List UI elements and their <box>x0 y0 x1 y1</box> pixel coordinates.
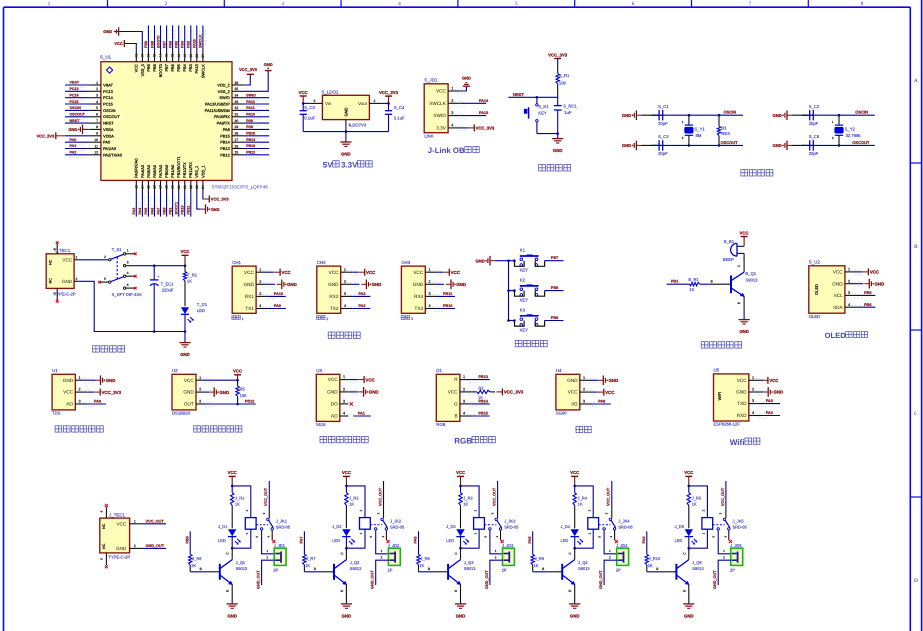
svg-text:4: 4 <box>609 536 613 538</box>
svg-text:1: 1 <box>463 375 465 379</box>
S_U2 pin 4 stub <box>845 303 863 310</box>
resistor J_R8 1K base <box>417 554 431 572</box>
svg-text:PB10/TX: PB10/TX <box>182 162 187 178</box>
svg-text:S_C2: S_C2 <box>809 104 820 109</box>
svg-text:B_B1: B_B1 <box>724 239 735 244</box>
connector J_JD3 2P terminal <box>502 543 515 573</box>
U5 pin 1 stub <box>749 376 767 383</box>
svg-text:2P: 2P <box>502 568 507 573</box>
wire net PB12 from U2 OUT <box>205 399 256 405</box>
svg-text:S_C3: S_C3 <box>658 134 669 139</box>
svg-text:J_D5: J_D5 <box>675 524 685 529</box>
wire net VCC_OUT to relay switch <box>493 481 498 508</box>
svg-text:42: 42 <box>171 54 175 58</box>
svg-text:S_C3: S_C3 <box>304 105 315 110</box>
power VCC at OLED pin1 <box>857 268 880 275</box>
svg-text:3.3V: 3.3V <box>341 161 358 170</box>
ground at U4 pin1 <box>592 376 618 386</box>
caption servo <box>576 426 591 432</box>
wire net PA5 from U1 bottom pin 15 <box>144 192 151 217</box>
connector U4 SG90 body <box>556 368 580 415</box>
svg-text:2: 2 <box>134 544 136 548</box>
svg-text:C: C <box>454 552 458 555</box>
svg-text:22: 22 <box>189 185 193 189</box>
wire net VCC_OUT from J_TEC1 pin1 <box>142 519 166 523</box>
svg-text:7: 7 <box>749 1 752 7</box>
wire net PB8 to U1 top pin 45 <box>150 25 157 50</box>
wire net VBAT to U1 pin 1 <box>65 81 89 88</box>
svg-text:GND: GND <box>570 614 580 619</box>
wire net PA7 to base resistor <box>300 531 305 554</box>
CH3 pin 1 stub <box>425 268 443 275</box>
svg-text:S9013: S9013 <box>745 277 758 282</box>
ground left of S_C6 <box>772 141 792 151</box>
svg-text:J_R2: J_R2 <box>349 496 359 501</box>
svg-text:PB10: PB10 <box>443 304 453 308</box>
svg-text:PB11: PB11 <box>443 292 452 296</box>
svg-text:35: 35 <box>235 87 239 91</box>
svg-text:PA12/USB/DP: PA12/USB/DP <box>205 102 230 107</box>
wire net PB10 from U1 bottom pin 21 <box>181 192 188 217</box>
svg-text:VCC: VCC <box>451 270 461 275</box>
svg-text:J_JD3: J_JD3 <box>502 543 514 548</box>
U1 top pin 44 BOOT0 <box>158 51 163 78</box>
svg-text:5: 5 <box>712 536 716 538</box>
svg-text:3: 3 <box>314 99 316 103</box>
ground at U1 pin 8 VSSA <box>68 125 89 135</box>
svg-text:PB15: PB15 <box>246 132 255 136</box>
ground below J_Q5 <box>683 604 694 619</box>
LED J_D5 <box>675 524 698 550</box>
svg-text:4: 4 <box>451 124 453 128</box>
svg-text:S_LDO1: S_LDO1 <box>322 90 339 95</box>
svg-text:10: 10 <box>94 138 98 142</box>
caption water quality module <box>55 426 103 432</box>
svg-text:OSCOUT: OSCOUT <box>70 113 86 117</box>
wire U1 top VCC pin to VCC tick <box>125 44 137 51</box>
svg-text:TYPE-C-2P: TYPE-C-2P <box>108 555 130 560</box>
wire net PC14 to U1 pin 3 <box>65 93 89 100</box>
svg-text:VDD_2: VDD_2 <box>217 83 230 88</box>
U1 right pin 27 PB14 <box>220 138 243 145</box>
svg-text:PB5: PB5 <box>176 64 181 71</box>
svg-text:SRD-05: SRD-05 <box>618 524 633 529</box>
caption J-Link OB port <box>428 146 480 155</box>
svg-text:KEY: KEY <box>520 328 529 333</box>
svg-text:1: 1 <box>259 268 261 272</box>
wire LDO ground rail <box>303 127 388 133</box>
svg-text:RGB: RGB <box>436 422 445 427</box>
wire U1 VDD_1 to VCC_3V3 <box>202 192 204 200</box>
svg-text:1: 1 <box>451 87 453 91</box>
wire bus to key K1 <box>509 259 516 262</box>
wire net PA10 to U1 pin 31 <box>244 113 270 120</box>
svg-text:38: 38 <box>195 54 199 58</box>
svg-text:20pF: 20pF <box>809 121 819 126</box>
svg-text:VBAT: VBAT <box>70 81 80 85</box>
switch K1 KEY <box>515 248 545 273</box>
U1 left pin 7 NRST <box>89 119 114 126</box>
svg-text:TX1: TX1 <box>245 306 254 311</box>
svg-text:VCC_OUT: VCC_OUT <box>607 487 611 506</box>
wire VCC node to relay coil J_JK5 <box>688 485 708 518</box>
svg-text:2P: 2P <box>388 568 393 573</box>
svg-text:4: 4 <box>343 412 345 416</box>
svg-text:PA0: PA0 <box>70 138 77 142</box>
svg-text:VCC_3V3: VCC_3V3 <box>211 197 230 202</box>
svg-text:S9013: S9013 <box>350 566 362 571</box>
transistor J_Q5 S9013 <box>676 560 704 585</box>
U1 top pin 45 PB8 <box>152 51 157 72</box>
capacitor S_C4 0.1uF <box>381 102 405 132</box>
svg-text:16: 16 <box>153 185 157 189</box>
wire net PA2 from CH2 pin4 <box>352 304 370 308</box>
svg-text:8M: 8M <box>696 133 702 138</box>
caption OLED display <box>825 331 868 340</box>
wire emitter of J_Q4 to ground <box>568 585 575 604</box>
power VCC above R5 <box>233 369 242 381</box>
wire relay NC contact to terminal J_JD1 <box>262 532 275 554</box>
no-connect at U3 DO pin3 <box>350 402 353 405</box>
connector J_JD1 2P terminal <box>273 543 286 573</box>
svg-text:GND: GND <box>183 390 194 395</box>
power VCC above C3 <box>299 90 308 104</box>
svg-text:10K: 10K <box>240 393 247 398</box>
U1 right pin 30 PA9/TX <box>217 119 244 126</box>
svg-text:PC14: PC14 <box>103 95 114 100</box>
wire net PB8 from key K2 <box>545 286 564 291</box>
connector U2 DS18B20 body <box>172 368 196 415</box>
ground left of S_C1 <box>622 110 642 120</box>
power VCC_3V3 above R1 <box>548 52 568 66</box>
svg-text:GND_OUT: GND_OUT <box>146 544 165 548</box>
relay J_JK2 coil box <box>360 518 371 530</box>
svg-text:GND: GND <box>264 62 273 67</box>
U1 left pin 12 PA2/TX/A0 <box>89 151 123 158</box>
connector CH2 serial header body <box>317 260 341 313</box>
svg-text:RX2: RX2 <box>329 294 339 299</box>
caption power circuit <box>93 346 125 352</box>
wire net PB9 to U1 top pin 46 <box>144 25 151 50</box>
svg-text:PA0: PA0 <box>94 400 101 404</box>
svg-text:0.1uF: 0.1uF <box>304 116 315 121</box>
svg-text:R1: R1 <box>721 125 727 130</box>
wire VCC node to relay coil J_JK1 <box>231 485 251 518</box>
svg-text:6: 6 <box>96 113 98 117</box>
svg-text:PB0: PB0 <box>185 536 189 543</box>
svg-text:OSCOUT: OSCOUT <box>103 114 120 119</box>
svg-text:U1: U1 <box>52 368 58 373</box>
LED J_D4 <box>561 524 584 550</box>
svg-text:J_JD2: J_JD2 <box>388 543 400 548</box>
svg-text:B: B <box>542 567 544 571</box>
svg-text:NRST: NRST <box>70 119 81 123</box>
relay J_JK3 coil box <box>474 518 485 530</box>
svg-text:1: 1 <box>199 376 201 380</box>
svg-text:1K: 1K <box>534 563 539 568</box>
svg-text:GND: GND <box>219 390 229 395</box>
svg-text:VCC: VCC <box>769 378 779 383</box>
U3 pin 1 stub <box>340 375 358 382</box>
wire net PA11 to U1 pin 32 <box>244 106 270 113</box>
svg-text:GND: GND <box>180 352 190 357</box>
svg-text:2: 2 <box>96 87 98 91</box>
ground below reset <box>552 134 563 154</box>
svg-text:G: G <box>454 402 458 407</box>
svg-text:1K: 1K <box>305 563 310 568</box>
svg-text:PB12: PB12 <box>246 151 255 155</box>
svg-text:S_Y1: S_Y1 <box>695 126 706 131</box>
svg-text:TX3: TX3 <box>414 306 423 311</box>
wire VCC node to relay coil J_JK2 <box>345 485 365 518</box>
wire T_TEC1 VCC to switch <box>79 259 109 261</box>
ground below buzzer <box>739 320 750 335</box>
svg-text:RXD: RXD <box>737 413 748 418</box>
U5 pin 4 stub <box>749 411 767 418</box>
U1 top pin 43 PB7 <box>164 51 169 72</box>
svg-text:26: 26 <box>235 144 239 148</box>
svg-text:44: 44 <box>159 54 163 58</box>
svg-text:VCC: VCC <box>281 270 291 275</box>
svg-text:S9013: S9013 <box>578 566 590 571</box>
wire U1 VSS_2 to GND <box>244 71 269 91</box>
LED T_D1 <box>181 302 208 333</box>
wire collector pin of J_Q3 <box>454 548 461 559</box>
wire net PB15 from D1 B <box>472 411 490 416</box>
svg-text:CH2: CH2 <box>317 260 326 265</box>
svg-text:NRST: NRST <box>513 92 524 97</box>
connector CH1 serial header body <box>232 260 256 313</box>
wire net PA15 to U1 top pin 38 <box>193 25 200 50</box>
wire VCC node to relay coil J_JK4 <box>573 485 593 518</box>
svg-text:B_R1: B_R1 <box>688 277 699 282</box>
wire net VCC_OUT to relay switch <box>607 481 612 508</box>
svg-text:K3: K3 <box>520 307 526 312</box>
svg-text:29: 29 <box>235 125 239 129</box>
svg-text:VCC: VCC <box>228 470 237 475</box>
ground below J_Q2 <box>341 604 352 619</box>
svg-text:PB9: PB9 <box>146 64 151 71</box>
connector J_TEC1 TYPE-C-2P body <box>100 512 131 559</box>
svg-text:PA4: PA4 <box>138 208 142 215</box>
connector S_U2 OLED body <box>809 260 845 319</box>
svg-text:VCC_3V3: VCC_3V3 <box>379 90 399 95</box>
wire emitter to ground <box>737 296 744 319</box>
svg-text:2: 2 <box>463 388 465 392</box>
ground below J_Q3 <box>455 604 466 619</box>
svg-text:PA7/A0: PA7/A0 <box>158 164 163 178</box>
U1 right pin 28 PB15 <box>220 132 243 139</box>
capacitor S_C3 0.1uF <box>300 103 316 131</box>
svg-text:19: 19 <box>171 185 175 189</box>
svg-text:RX3: RX3 <box>414 294 424 299</box>
relay J_JK1 coil box <box>245 518 256 530</box>
transistor J_Q2 S9013 <box>334 560 362 585</box>
svg-text:LED: LED <box>197 308 205 313</box>
power VCC above J_R3 <box>456 470 465 486</box>
power VCC_3V3 above U1 right <box>239 67 258 74</box>
U1 bottom pin 24 VDD_1 <box>200 165 205 191</box>
svg-text:3: 3 <box>490 512 494 514</box>
D1 pin 2 stub <box>460 388 478 395</box>
svg-text:RX1: RX1 <box>245 294 255 299</box>
svg-text:PA3: PA3 <box>766 399 773 403</box>
power VCC above buzzer <box>740 230 749 246</box>
power VCC at CH2 pin1 <box>352 269 376 276</box>
svg-text:2P: 2P <box>730 568 735 573</box>
svg-text:3: 3 <box>451 111 453 115</box>
wire net PA7 from U1 bottom pin 17 <box>156 192 163 217</box>
wire net SWCLK to U1 top pin 37 <box>199 25 206 50</box>
resistor T_R1 1K <box>183 266 198 307</box>
svg-text:2: 2 <box>245 509 249 511</box>
svg-text:1: 1 <box>359 532 363 534</box>
svg-text:2: 2 <box>848 279 850 283</box>
svg-text:OLED: OLED <box>814 284 819 295</box>
power VCC at U5 pin1 <box>761 377 779 384</box>
svg-text:PA3: PA3 <box>132 208 136 215</box>
svg-text:3: 3 <box>752 399 754 403</box>
svg-text:LED: LED <box>218 538 226 543</box>
svg-text:J_R7: J_R7 <box>306 556 316 561</box>
svg-text:45: 45 <box>153 54 157 58</box>
power VCC at U3 pin1 <box>348 376 375 383</box>
wire VCC node to relay coil J_JK3 <box>459 485 479 518</box>
svg-text:1: 1 <box>495 549 497 553</box>
ground below LDO <box>340 132 351 157</box>
svg-text:VSSA: VSSA <box>103 127 114 132</box>
svg-text:PB13: PB13 <box>220 146 230 151</box>
LDO pin 2 Vout stub <box>369 99 381 103</box>
svg-text:GND: GND <box>68 127 77 132</box>
svg-text:J_R5: J_R5 <box>692 496 702 501</box>
wire net OSCIN to U1 pin 5 <box>65 106 89 113</box>
svg-text:25: 25 <box>235 151 239 155</box>
svg-text:2: 2 <box>78 388 80 392</box>
resistor J_R10 1K base <box>645 554 661 572</box>
svg-text:PA3: PA3 <box>358 292 365 296</box>
svg-text:LED: LED <box>675 538 683 543</box>
svg-text:GND: GND <box>553 148 563 153</box>
svg-text:VCC: VCC <box>329 270 340 275</box>
svg-text:3: 3 <box>96 94 98 98</box>
U1 bottom pin 16 PA6/A0 <box>152 164 157 191</box>
svg-text:OSCIN: OSCIN <box>103 108 116 113</box>
svg-text:PB2/BOOT1: PB2/BOOT1 <box>176 156 181 178</box>
svg-text:2: 2 <box>343 388 345 392</box>
svg-text:47: 47 <box>141 54 145 58</box>
svg-text:S_U1: S_U1 <box>100 55 112 60</box>
svg-text:3: 3 <box>605 512 609 514</box>
svg-text:PB4: PB4 <box>181 41 185 48</box>
svg-text:LED: LED <box>446 538 454 543</box>
svg-text:J_R8: J_R8 <box>420 556 430 561</box>
svg-text:VCC_OUT: VCC_OUT <box>146 519 165 523</box>
wire net PB15 to U1 pin 28 <box>244 132 270 139</box>
U1 bottom pin 20 PB2/BOOT1 <box>176 156 181 191</box>
wire net PA12 to U1 pin 33 <box>244 100 270 107</box>
svg-text:RGB: RGB <box>454 436 472 445</box>
svg-text:6: 6 <box>127 283 129 287</box>
svg-text:C: C <box>226 552 230 555</box>
svg-text:4: 4 <box>495 536 499 538</box>
capacitor S_C3 20pF <box>641 134 669 156</box>
svg-text:LED: LED <box>561 538 569 543</box>
T_TEC1 pin 1 stub <box>74 255 79 260</box>
U5 pin 2 stub <box>749 388 767 395</box>
serial port 2 label <box>317 316 329 322</box>
svg-text:220uF: 220uF <box>162 287 174 292</box>
svg-text:CH3: CH3 <box>401 260 410 265</box>
svg-text:PA8: PA8 <box>223 127 230 132</box>
svg-text:PB14: PB14 <box>478 399 488 403</box>
U1 bottom pin 21 PB10/TX <box>182 162 187 192</box>
svg-text:1: 1 <box>75 255 77 259</box>
power VCC at U4 pin2 <box>592 389 615 396</box>
wire relay coil return to collector node <box>575 529 594 548</box>
svg-text:PA9: PA9 <box>246 119 253 123</box>
wire net VCC_OUT to relay switch <box>264 481 269 508</box>
svg-text:C: C <box>340 552 344 555</box>
svg-text:KEY: KEY <box>520 268 529 273</box>
relay J_JK5 coil box <box>702 518 713 530</box>
switch K3 KEY <box>515 307 545 332</box>
svg-text:VCC: VCC <box>342 470 351 475</box>
caption serial circuit <box>328 332 360 338</box>
svg-text:GND: GND <box>287 282 297 287</box>
caption light sensor module <box>320 437 368 443</box>
svg-text:VCC_OUT: VCC_OUT <box>378 487 382 506</box>
U3 pin 3 stub <box>340 400 358 407</box>
svg-text:VCC: VCC <box>116 522 126 527</box>
wire collector pin of J_Q4 <box>568 548 575 559</box>
svg-text:GND: GND <box>736 390 747 395</box>
svg-text:OLED: OLED <box>809 314 820 319</box>
wire collector pin of J_Q1 <box>226 548 233 559</box>
svg-text:R5: R5 <box>240 386 246 391</box>
svg-text:9: 9 <box>96 132 98 136</box>
svg-text:5516: 5516 <box>316 422 326 427</box>
svg-text:1: 1 <box>473 532 477 534</box>
wire emitter of J_Q1 to ground <box>226 585 233 604</box>
U1 right pin 35 VSS_2 <box>218 87 244 94</box>
svg-text:3: 3 <box>583 400 585 404</box>
svg-text:VCC: VCC <box>365 377 375 382</box>
svg-text:J_D2: J_D2 <box>332 524 342 529</box>
svg-text:18: 18 <box>165 185 169 189</box>
wire net PA14 from S_JD1 pin2 <box>460 99 489 103</box>
svg-text:S9013: S9013 <box>236 566 248 571</box>
svg-text:K2: K2 <box>520 277 526 282</box>
svg-text:B: B <box>428 567 430 571</box>
svg-text:SG90: SG90 <box>556 411 567 416</box>
svg-text:3: 3 <box>848 291 850 295</box>
wire relay coil return to collector node <box>346 529 365 548</box>
transistor J_Q1 S9013 <box>220 560 248 585</box>
svg-text:K1: K1 <box>520 248 526 253</box>
svg-text:BOOT0: BOOT0 <box>158 63 163 77</box>
svg-text:E: E <box>340 590 344 592</box>
svg-text:1: 1 <box>682 120 684 124</box>
svg-text:2: 2 <box>104 255 106 259</box>
svg-text:PA8: PA8 <box>246 125 253 129</box>
svg-text:S_U2: S_U2 <box>809 260 821 265</box>
svg-text:GND: GND <box>772 113 781 118</box>
svg-text:1K: 1K <box>349 502 354 507</box>
svg-text:J_R1: J_R1 <box>235 496 245 501</box>
svg-text:PB7: PB7 <box>162 41 166 48</box>
wire bus to key K2 <box>509 289 516 292</box>
